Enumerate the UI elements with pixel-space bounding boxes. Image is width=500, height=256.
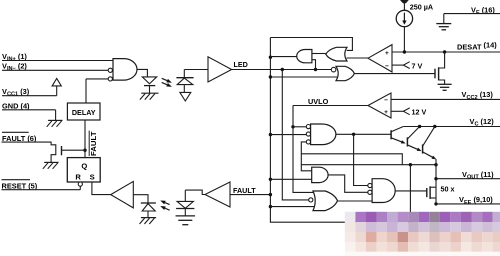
svg-text:−: − — [384, 97, 388, 104]
svg-text:S: S — [90, 173, 95, 182]
svg-text:12 V: 12 V — [412, 108, 427, 117]
svg-text:VE (16): VE (16) — [471, 5, 495, 16]
svg-text:50 x: 50 x — [441, 184, 455, 193]
svg-text:LED: LED — [234, 60, 248, 69]
svg-text:VOUT (11): VOUT (11) — [462, 170, 494, 181]
svg-text:UVLO: UVLO — [308, 97, 329, 106]
svg-text:R: R — [75, 173, 81, 182]
svg-text:−: − — [385, 63, 389, 70]
svg-text:FAULT: FAULT — [91, 131, 98, 156]
svg-text:FAULT (6): FAULT (6) — [2, 134, 37, 143]
svg-text:Q: Q — [81, 161, 87, 170]
svg-text:7 V: 7 V — [412, 61, 423, 70]
svg-text:+: + — [385, 50, 389, 57]
svg-text:DELAY: DELAY — [72, 108, 96, 117]
svg-text:GND (4): GND (4) — [2, 101, 30, 110]
svg-text:FAULT: FAULT — [233, 186, 256, 195]
svg-text:250 µA: 250 µA — [410, 2, 433, 11]
svg-text:+: + — [384, 109, 388, 116]
